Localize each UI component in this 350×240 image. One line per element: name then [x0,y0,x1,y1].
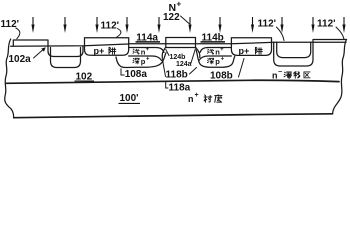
svg-text:112': 112' [1,19,20,30]
svg-text:+: + [177,0,182,9]
deep p+ region 2 outline [196,50,235,67]
shallow n+ band 1 top [129,48,164,53]
label shallow n+ band 1 [133,49,139,54]
svg-text:112': 112' [317,19,336,30]
p+ well W2 tub with raised top [231,38,271,56]
right mesa slab top [313,40,347,43]
svg-text:+: + [195,92,199,99]
svg-text:+: + [221,57,225,63]
leader 112' #3 [277,27,285,41]
leader 102a arrow [34,49,45,58]
leader N+ 122 [181,16,190,24]
svg-text:112': 112' [101,21,120,32]
svg-text:122: 122 [163,12,180,23]
svg-text:108b: 108b [210,70,233,81]
svg-text:p+: p+ [239,46,250,56]
leader 112' #2 [117,29,121,38]
bridge line to right mesa [272,41,347,43]
liner flare right [196,48,200,58]
center cap 114 [166,38,196,48]
svg-text:+: + [146,47,150,53]
mesa 102a slab [13,40,48,46]
implant arrows [31,17,34,33]
svg-text:p+: p+ [94,46,105,56]
leader 108a bracket [121,69,124,75]
svg-text:124b: 124b [170,54,186,61]
svg-text:+: + [146,57,150,63]
svg-text:118b: 118b [166,70,188,81]
leader 118a bracket [166,82,168,89]
band 2 mid line [199,56,231,61]
trench T2 outer tub [274,42,313,66]
band 1 mid line [129,56,162,61]
svg-text:n: n [188,94,194,104]
svg-text:102a: 102a [9,54,32,65]
shallow n+ band 2 top [200,48,231,53]
surface line B (between wells) [129,42,272,43]
label shallow n+ band 2 [207,49,213,54]
svg-text:−: − [278,69,282,76]
leader 112' #4 [336,27,344,39]
p+ well W1 tub with raised top [85,38,129,56]
substrate top line [6,80,339,83]
svg-text:p: p [215,57,220,66]
leader 118b left diagonal [162,58,165,77]
leader 112' #1 [16,28,20,39]
svg-text:118a: 118a [169,83,191,94]
liner flare left [162,48,165,58]
svg-text:100': 100' [120,93,139,104]
leader 118b right hook [190,68,197,75]
svg-text:124a: 124a [176,61,192,68]
svg-text:112': 112' [258,19,277,30]
label deep p+ band 1 [133,58,139,63]
surface line A (left recessed surface) [11,44,129,46]
label deep p+ band 2 [207,58,213,63]
deep p+ region 1 outline [116,53,166,68]
leader 108b [239,59,245,78]
svg-text:+: + [220,47,224,53]
trench T1 upper tub [48,46,83,57]
leader 124b [166,50,169,56]
leader 124a [191,49,195,63]
svg-text:n: n [272,70,278,80]
trench T1 lower tub [51,48,81,68]
trench T2 inner tub [277,42,311,57]
svg-text:108a: 108a [125,69,148,80]
bottom line [14,114,333,118]
left break line [5,39,14,118]
right break line [333,40,347,114]
